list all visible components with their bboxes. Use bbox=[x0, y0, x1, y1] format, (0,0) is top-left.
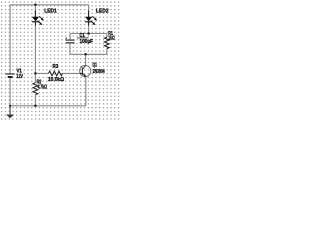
svg-text:4.7kΩ: 4.7kΩ bbox=[38, 85, 48, 91]
svg-text:LED1: LED1 bbox=[44, 9, 57, 15]
svg-text:10.0kΩ: 10.0kΩ bbox=[48, 77, 65, 83]
svg-text:100µF: 100µF bbox=[80, 39, 94, 45]
svg-text:Q1: Q1 bbox=[93, 63, 98, 69]
svg-text:LED2: LED2 bbox=[96, 9, 109, 15]
svg-text:2N3904: 2N3904 bbox=[93, 69, 106, 75]
svg-text:12V: 12V bbox=[16, 74, 23, 80]
svg-text:1kΩ: 1kΩ bbox=[108, 35, 115, 41]
svg-text:R3: R3 bbox=[53, 64, 59, 70]
